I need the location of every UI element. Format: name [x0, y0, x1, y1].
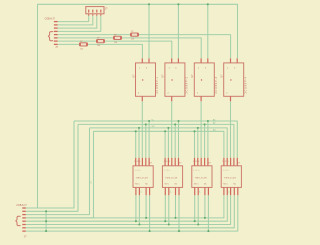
- pin of J2: [54, 37, 58, 39]
- wire: [207, 121, 209, 158]
- pin 1 of U1: [141, 58, 143, 63]
- svg-text:1 2 3 4 5: 1 2 3 4 5: [222, 161, 228, 163]
- svg-text:NO C: NO C: [194, 184, 199, 186]
- wire: [200, 101, 202, 158]
- junction: [193, 130, 195, 132]
- svg-text:R?: R?: [131, 31, 133, 33]
- junction: [45, 210, 47, 212]
- resistor R4: [130, 31, 138, 41]
- pin 4 of K3: [204, 158, 206, 166]
- svg-text:TWS-4C4R: TWS-4C4R: [195, 177, 208, 179]
- wire: [138, 195, 140, 224]
- pin 2 of K3: [197, 158, 199, 166]
- wire: [164, 131, 166, 158]
- pin 2 of U1: [141, 96, 143, 101]
- svg-text:+ - s + -: + - s + -: [164, 169, 171, 171]
- svg-text:1 2 3 4 5: 1 2 3 4 5: [193, 161, 199, 163]
- wire (row 5 net): [26, 195, 228, 221]
- svg-text:R?: R?: [80, 41, 82, 43]
- wire (top bus net): [26, 4, 238, 208]
- pin 5 of K2: [178, 158, 180, 166]
- svg-text:COB-8-J?: COB-8-J?: [45, 19, 56, 21]
- pin 1 of U2: [171, 58, 173, 63]
- junction: [174, 123, 176, 125]
- pin of J3: [22, 214, 26, 216]
- op-amp U2 (optocoupler): [163, 63, 189, 96]
- pin of J2: [54, 30, 58, 32]
- svg-text:R?: R?: [97, 38, 99, 40]
- pin of J1: [88, 10, 90, 13]
- pin 8 of K1: [145, 187, 147, 195]
- op-amp U1 (optocoupler): [133, 63, 159, 96]
- connector J1 (top power header): [86, 7, 108, 14]
- pin of J3: [22, 220, 26, 222]
- wire: [58, 16, 101, 32]
- wire: [148, 4, 150, 58]
- pin of J1: [100, 10, 102, 13]
- wire: [58, 16, 89, 22]
- pin of J3: [22, 207, 26, 209]
- svg-text:o1: o1: [169, 191, 171, 193]
- wire: [171, 101, 173, 158]
- pin 4 of K4: [233, 158, 235, 166]
- wire: [58, 37, 114, 39]
- wire: [122, 38, 202, 59]
- wire: [26, 131, 94, 218]
- svg-text:+ - s + -: + - s + -: [193, 169, 200, 171]
- pin of J1: [96, 10, 98, 13]
- pin of J3: [22, 224, 26, 226]
- wire: [58, 16, 97, 29]
- wire: [230, 101, 232, 158]
- wire: [194, 195, 196, 221]
- wire: [167, 128, 169, 158]
- pin 3 of U2: [177, 58, 179, 63]
- wire: [105, 41, 172, 58]
- junction: [138, 127, 140, 129]
- pin 3 of U3: [207, 58, 209, 63]
- wire: [135, 195, 137, 221]
- junction: [204, 123, 206, 125]
- pin of J2: [54, 27, 58, 29]
- pin of J2: [54, 34, 58, 36]
- svg-text:2COB9P-2: 2COB9P-2: [186, 76, 189, 93]
- pin 5 of K4: [236, 158, 238, 166]
- svg-text:10k: 10k: [131, 39, 134, 41]
- wire: [88, 44, 143, 58]
- svg-text:2COB9P-1: 2COB9P-1: [156, 76, 159, 93]
- pin 8 of K4: [230, 187, 232, 195]
- wire: [26, 128, 90, 215]
- junction: [167, 127, 169, 129]
- wire: [204, 195, 206, 218]
- wire: [58, 16, 93, 25]
- wire (bus 1): [74, 121, 237, 158]
- wire: [139, 35, 231, 59]
- op-amp U4 (optocoupler): [222, 63, 248, 96]
- wire (bus 2): [78, 124, 234, 157]
- pin of J3: [22, 217, 26, 219]
- svg-text:TWS-4C4R: TWS-4C4R: [224, 177, 237, 179]
- pin of J3: [22, 230, 26, 232]
- pin 2 of U4: [230, 96, 232, 101]
- junction: [178, 230, 180, 232]
- wire (row 4 net): [26, 195, 224, 218]
- wire (row 8 net): [26, 195, 238, 231]
- junction: [174, 217, 176, 219]
- wire: [26, 121, 74, 208]
- wire: [164, 195, 166, 221]
- connector J3 (bottom output header): [16, 205, 28, 239]
- relay module K3: [192, 161, 212, 188]
- pin of J3: [22, 227, 26, 229]
- junction: [145, 123, 147, 125]
- junction: [168, 223, 170, 225]
- junction: [207, 120, 209, 122]
- junction: [197, 223, 199, 225]
- pin 4 of K1: [145, 158, 147, 166]
- relay module K2: [162, 161, 182, 188]
- wire: [149, 195, 151, 231]
- pin 8 of K2: [175, 187, 177, 195]
- pin 6 of K2: [164, 187, 166, 195]
- pin of J1: [92, 10, 94, 13]
- pin 1 of K1: [135, 158, 137, 166]
- svg-text:TWS-4C4R: TWS-4C4R: [165, 177, 178, 179]
- pin 5 of K1: [148, 158, 150, 166]
- pin 3 of K3: [200, 158, 202, 166]
- pin of J2: [54, 40, 58, 42]
- pin 7 of K4: [226, 187, 228, 195]
- pin 3 of K4: [230, 158, 232, 166]
- pin 7 of K3: [197, 187, 199, 195]
- pin 9 of K4: [233, 187, 235, 195]
- op-amp U3 (optocoupler): [192, 63, 218, 96]
- junction: [135, 130, 137, 132]
- junction: [207, 3, 209, 5]
- pin 9 of K1: [149, 187, 151, 195]
- wire: [197, 195, 199, 224]
- wire: [174, 124, 176, 157]
- wire: [175, 195, 177, 218]
- wire: [207, 4, 209, 58]
- pin 2 of U2: [171, 96, 173, 101]
- junction: [148, 120, 150, 122]
- junction: [164, 220, 166, 222]
- relay module K1: [133, 161, 153, 188]
- junction: [138, 223, 140, 225]
- pin 2 of K2: [167, 158, 169, 166]
- pin 1 of K3: [194, 158, 196, 166]
- junction: [177, 120, 179, 122]
- pin 6 of K3: [194, 187, 196, 195]
- pin 6 of K1: [135, 187, 137, 195]
- svg-text:GD: GD: [152, 126, 156, 128]
- resistor R3: [113, 34, 121, 44]
- pin 9 of K2: [178, 187, 180, 195]
- svg-text:NO C: NO C: [223, 184, 228, 186]
- wire: [145, 124, 147, 157]
- pin of J2: [54, 43, 58, 45]
- pin 6 of K4: [223, 187, 225, 195]
- wire: [178, 121, 180, 158]
- pin 1 of K4: [223, 158, 225, 166]
- wire: [58, 34, 131, 36]
- wire: [141, 101, 143, 158]
- junction: [164, 130, 166, 132]
- pin 7 of K1: [138, 187, 140, 195]
- svg-text:10k: 10k: [114, 42, 117, 44]
- wire (bus 4): [94, 131, 224, 158]
- wire (row 6 net): [26, 195, 231, 224]
- svg-text:NO C: NO C: [135, 184, 140, 186]
- wire: [197, 128, 199, 158]
- svg-text:10k: 10k: [97, 45, 100, 47]
- junction: [148, 3, 150, 5]
- wire: [26, 124, 78, 211]
- pin 9 of K3: [207, 187, 209, 195]
- pin 8 of K3: [204, 187, 206, 195]
- wire: [168, 195, 170, 224]
- wire: [135, 131, 137, 158]
- pin 4 of K2: [174, 158, 176, 166]
- svg-text:o1: o1: [198, 191, 200, 193]
- svg-text:+ - s + -: + - s + -: [223, 169, 230, 171]
- pin of J2: [54, 24, 58, 26]
- pin 1 of U3: [200, 58, 202, 63]
- pin 2 of U3: [200, 96, 202, 101]
- svg-text:o1: o1: [228, 191, 230, 193]
- svg-text:R?: R?: [114, 34, 116, 36]
- wire: [58, 43, 80, 45]
- junction: [149, 230, 151, 232]
- svg-text:10k: 10k: [80, 48, 83, 50]
- svg-text:1 2 3 4 5: 1 2 3 4 5: [164, 161, 170, 163]
- resistor R1: [79, 41, 87, 51]
- wire: [204, 124, 206, 157]
- wire: [178, 195, 180, 231]
- svg-text:TWS-4C4R: TWS-4C4R: [136, 177, 149, 179]
- pin 3 of K1: [141, 158, 143, 166]
- pin 3 of K2: [171, 158, 173, 166]
- wire: [138, 128, 140, 158]
- junction: [177, 3, 179, 5]
- svg-text:1 2 3 4 5: 1 2 3 4 5: [134, 161, 140, 163]
- junction: [207, 230, 209, 232]
- junction: [45, 220, 47, 222]
- wire (bus 3): [90, 128, 228, 158]
- pin 7 of K2: [168, 187, 170, 195]
- svg-text:g1: g1: [90, 182, 92, 184]
- connector J2 (left input header): [45, 19, 59, 49]
- junction: [45, 230, 47, 232]
- wire: [145, 195, 147, 218]
- junction: [194, 220, 196, 222]
- pin 3 of U4: [236, 58, 238, 63]
- junction: [197, 127, 199, 129]
- pin of J3: [22, 210, 26, 212]
- pin 2 of K1: [138, 158, 140, 166]
- relay module K4: [221, 161, 241, 188]
- svg-text:COB-8-J?: COB-8-J?: [16, 205, 27, 207]
- svg-text:2COB9P-4: 2COB9P-4: [244, 76, 247, 93]
- junction: [145, 217, 147, 219]
- junction: [135, 220, 137, 222]
- pin 3 of U1: [148, 58, 150, 63]
- wire: [207, 195, 209, 231]
- pin 5 of K3: [207, 158, 209, 166]
- wire: [58, 40, 97, 42]
- pin 1 of K2: [164, 158, 166, 166]
- pin 10 of K4: [237, 187, 239, 195]
- wire (row 7 net): [26, 195, 235, 228]
- svg-text:+ - s + -: + - s + -: [135, 169, 142, 171]
- junction: [204, 217, 206, 219]
- svg-text:NO C: NO C: [165, 184, 170, 186]
- resistor R2: [96, 38, 104, 48]
- wire: [148, 121, 150, 158]
- wire: [177, 4, 179, 58]
- pin of J2: [54, 21, 58, 23]
- pin 2 of K4: [226, 158, 228, 166]
- wire (tie net): [45, 211, 47, 231]
- pin 1 of U4: [230, 58, 232, 63]
- wire: [194, 131, 196, 158]
- svg-text:2COB9P-3: 2COB9P-3: [215, 76, 218, 93]
- svg-text:o1: o1: [139, 191, 141, 193]
